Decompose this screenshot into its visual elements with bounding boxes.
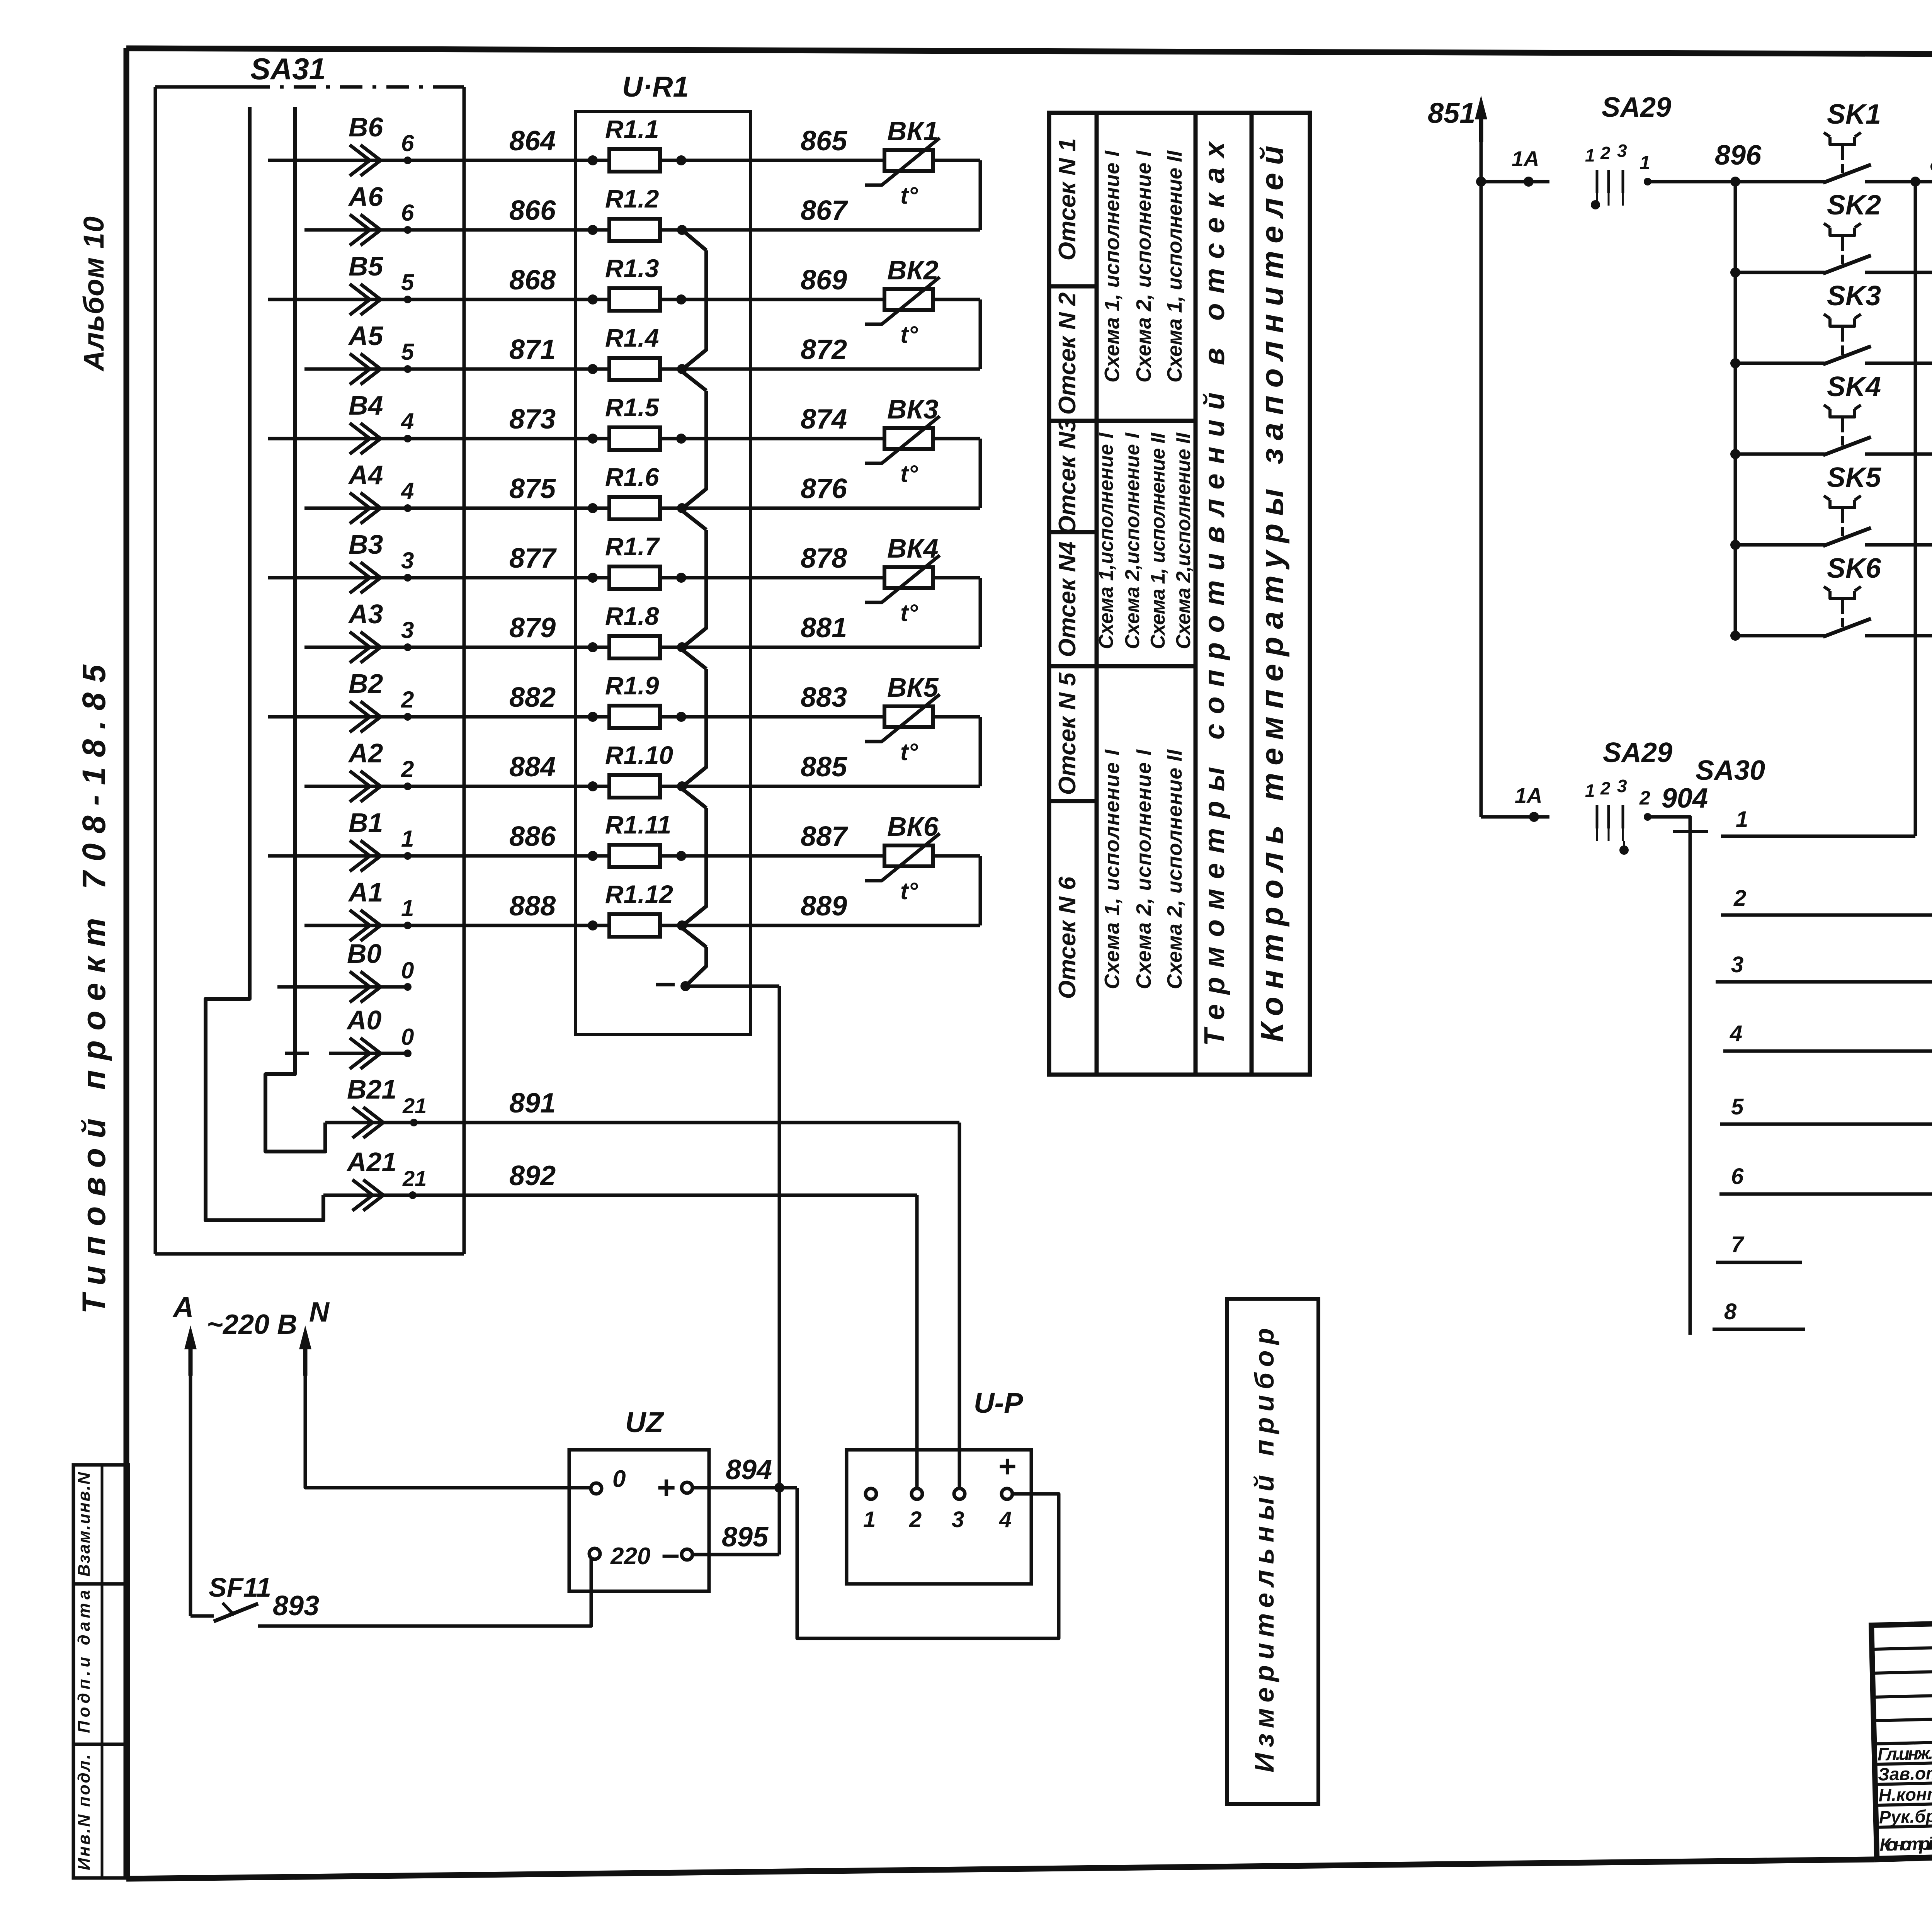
resistor R1.6	[588, 503, 598, 513]
svg-text:R1.3: R1.3	[605, 254, 659, 282]
circuit breaker SF11	[190, 1614, 214, 1618]
connector row B0 pin 0	[277, 985, 408, 989]
svg-text:882: 882	[509, 682, 556, 713]
svg-text:А0: А0	[346, 1005, 382, 1035]
thermal contact SK4	[1730, 449, 1740, 459]
thermistor BK2	[884, 289, 933, 310]
svg-text:873: 873	[509, 404, 556, 435]
resistor block U-R1 box	[575, 112, 750, 1034]
svg-text:5: 5	[401, 339, 415, 365]
vertical feed bus from 896 to SK2..SK6	[1734, 182, 1737, 636]
thermal contact SK5	[1730, 540, 1740, 550]
svg-text:1А: 1А	[1515, 783, 1543, 808]
connector row А6 pin 6 wire 866	[304, 228, 609, 232]
table: thermometers in compartments	[1049, 113, 1310, 1075]
svg-text:6: 6	[401, 200, 414, 226]
svg-text:0: 0	[612, 1466, 626, 1492]
svg-text:Схема 2, исполнение II: Схема 2, исполнение II	[1163, 749, 1186, 989]
svg-text:t°: t°	[900, 878, 918, 905]
resistor R1.4	[588, 364, 598, 374]
UZ terminal 0	[591, 1483, 602, 1494]
svg-text:+: +	[657, 1469, 676, 1505]
svg-text:21: 21	[402, 1166, 427, 1191]
svg-text:R1.8: R1.8	[605, 602, 659, 630]
svg-text:N: N	[309, 1297, 330, 1328]
svg-text:1: 1	[1585, 781, 1595, 801]
svg-text:Констр.iкат: Констр.iкат	[1879, 1833, 1932, 1855]
wire 899	[1865, 362, 1932, 365]
svg-text:868: 868	[509, 265, 556, 296]
svg-text:1: 1	[401, 826, 414, 852]
svg-text:Схема 2, исполнение I: Схема 2, исполнение I	[1132, 150, 1155, 383]
BK1 return loop to wire 867	[933, 159, 980, 162]
resistor R1.10	[588, 781, 598, 791]
connector row A0 pin 0	[285, 1052, 309, 1055]
svg-text:866: 866	[509, 195, 556, 226]
svg-text:В0: В0	[347, 939, 382, 969]
svg-text:874: 874	[801, 404, 847, 435]
svg-text:2: 2	[1733, 886, 1746, 911]
thermal contact SK2	[1730, 267, 1740, 277]
svg-text:Н.контр.: Н.контр.	[1878, 1783, 1932, 1805]
connector row B21 pin 21 wire 891	[325, 1121, 414, 1124]
svg-text:R1.2: R1.2	[605, 184, 659, 213]
svg-text:3: 3	[1617, 141, 1627, 161]
svg-text:892: 892	[509, 1160, 556, 1191]
svg-text:UZ: UZ	[625, 1406, 664, 1438]
connector row A21 pin 21 wire 892	[323, 1194, 413, 1197]
svg-text:R1.9: R1.9	[605, 671, 659, 700]
box: measuring instrument	[1227, 1299, 1318, 1804]
svg-text:Альбом 10: Альбом 10	[78, 216, 110, 372]
thermal contact SK6	[1730, 631, 1740, 641]
svg-text:887: 887	[801, 821, 848, 852]
resistor R1.5	[588, 434, 598, 444]
svg-text:SK1: SK1	[1827, 99, 1881, 130]
svg-text:872: 872	[801, 334, 847, 365]
connector row А4 pin 4 wire 875	[304, 507, 609, 510]
svg-text:SA29: SA29	[1603, 737, 1672, 768]
svg-text:1А: 1А	[1512, 146, 1539, 171]
SA31 common bus wire 1	[206, 107, 323, 1220]
svg-text:SK4: SK4	[1827, 371, 1881, 402]
UZ terminal 220	[589, 1548, 600, 1559]
svg-text:SK2: SK2	[1827, 190, 1881, 221]
wire 901	[1865, 452, 1932, 456]
margin stamp boxes (Vzam.inv.N / Podp.i data / Inv.N podl.)	[73, 1465, 128, 1878]
svg-text:SK5: SK5	[1827, 462, 1881, 493]
svg-text:В1: В1	[349, 808, 383, 838]
BK2 return loop to wire 872	[933, 298, 980, 301]
svg-text:t°: t°	[900, 461, 918, 487]
svg-text:А6: А6	[348, 182, 384, 212]
wire 892 drop to U-P pin2	[915, 1195, 919, 1489]
svg-text:5: 5	[401, 269, 415, 295]
switch SA30 selector	[1648, 817, 1690, 1335]
connector row А1 pin 1 wire 888	[304, 924, 609, 927]
svg-text:875: 875	[509, 473, 556, 504]
svg-text:Схема 2,исполнение II: Схема 2,исполнение II	[1172, 432, 1195, 649]
svg-text:851: 851	[1428, 97, 1475, 129]
BK5 return loop to wire 885	[933, 715, 980, 719]
svg-text:1: 1	[863, 1507, 876, 1532]
svg-text:895: 895	[722, 1522, 769, 1553]
svg-text:А: А	[172, 1291, 194, 1323]
svg-text:Схема 2, исполнение I: Схема 2, исполнение I	[1132, 749, 1155, 989]
svg-text:R1.5: R1.5	[605, 393, 660, 422]
resistor R1.7	[588, 573, 598, 583]
U-P terminal 4	[1002, 1488, 1012, 1499]
U-P terminal 1	[866, 1488, 876, 1499]
svg-text:894: 894	[726, 1454, 772, 1485]
connector row В3 pin 3 wire 877	[268, 576, 609, 580]
svg-text:А3: А3	[348, 599, 383, 629]
svg-text:ВК2: ВК2	[887, 255, 939, 285]
resistor R1.11	[588, 851, 598, 861]
svg-text:4: 4	[401, 408, 414, 434]
svg-text:Схема 1,исполнение I: Схема 1,исполнение I	[1095, 432, 1117, 649]
svg-text:888: 888	[509, 891, 556, 922]
svg-text:Схема 1, исполнение I: Схема 1, исполнение I	[1100, 749, 1124, 989]
thermistor BK5	[884, 706, 933, 727]
svg-text:884: 884	[509, 752, 556, 782]
svg-text:871: 871	[509, 334, 556, 365]
svg-text:0: 0	[401, 1024, 414, 1050]
SA31 common bus wire 2	[265, 107, 325, 1152]
thermal contact SK3	[1730, 358, 1740, 368]
svg-text:7: 7	[1731, 1232, 1745, 1257]
svg-text:0: 0	[401, 958, 414, 983]
BK3 return loop to wire 876	[933, 437, 980, 441]
svg-text:R1.12: R1.12	[605, 880, 673, 908]
connector row В1 pin 1 wire 886	[268, 854, 609, 858]
wire 898	[1865, 271, 1932, 274]
svg-text:В3: В3	[349, 529, 383, 560]
svg-text:1: 1	[1639, 152, 1650, 173]
connector row А2 pin 2 wire 884	[304, 785, 609, 788]
svg-text:883: 883	[801, 682, 847, 713]
svg-text:Отсек N 2: Отсек N 2	[1054, 293, 1081, 415]
supply arrow A	[189, 1336, 193, 1376]
U-P terminal 2	[912, 1488, 922, 1499]
svg-text:Отсек N4: Отсек N4	[1054, 541, 1081, 657]
svg-text:ВК6: ВК6	[887, 811, 939, 842]
R1 chain common output node	[656, 983, 675, 987]
svg-text:891: 891	[509, 1088, 556, 1119]
svg-text:897: 897	[1930, 147, 1932, 178]
svg-text:3: 3	[1617, 776, 1627, 796]
rectifier unit UZ box	[569, 1450, 709, 1591]
svg-text:3: 3	[1731, 952, 1743, 977]
svg-text:881: 881	[801, 612, 847, 643]
svg-text:Отсек N 6: Отсек N 6	[1054, 876, 1081, 999]
svg-text:3: 3	[401, 617, 414, 643]
svg-text:SK3: SK3	[1827, 281, 1881, 311]
svg-text:ВК1: ВК1	[887, 116, 939, 146]
svg-text:Отсек N 1: Отсек N 1	[1054, 138, 1081, 261]
svg-text:893: 893	[273, 1590, 319, 1621]
svg-text:886: 886	[509, 821, 556, 852]
svg-text:R1.6: R1.6	[605, 463, 660, 491]
svg-text:~220 В: ~220 В	[207, 1309, 297, 1340]
thermistor BK6	[884, 845, 933, 866]
svg-text:Отсек N 5: Отсек N 5	[1054, 672, 1081, 795]
switch SA31 box	[155, 85, 247, 89]
svg-text:2: 2	[1600, 143, 1611, 163]
svg-text:Взам.инв.N: Взам.инв.N	[75, 1472, 94, 1577]
wire 897	[1865, 180, 1932, 184]
svg-text:885: 885	[801, 752, 847, 782]
svg-text:Схема 1, исполнение I: Схема 1, исполнение I	[1100, 150, 1124, 383]
svg-text:А2: А2	[348, 738, 383, 768]
svg-text:1: 1	[401, 895, 414, 921]
svg-text:R1.11: R1.11	[605, 810, 671, 839]
lower switch SA29 deck 2	[1481, 815, 1549, 819]
svg-text:ВК3: ВК3	[887, 394, 939, 424]
svg-text:R1.10: R1.10	[605, 741, 673, 769]
svg-text:R1.4: R1.4	[605, 323, 659, 352]
svg-text:Рук.бриг.: Рук.бриг.	[1879, 1805, 1932, 1827]
svg-text:А5: А5	[348, 321, 384, 351]
selector verticals SK rows to SA30 taps	[1914, 182, 1917, 836]
wire 902	[1865, 543, 1932, 547]
svg-text:А21: А21	[346, 1147, 396, 1177]
svg-text:220: 220	[610, 1543, 650, 1570]
svg-text:878: 878	[801, 543, 847, 574]
supply arrow N	[303, 1336, 308, 1376]
svg-text:ВК5: ВК5	[887, 672, 939, 703]
svg-text:В5: В5	[349, 251, 384, 281]
svg-text:896: 896	[1715, 140, 1762, 171]
svg-text:4: 4	[1730, 1021, 1742, 1046]
feeder wire 851	[1479, 106, 1483, 142]
wire 891 drop to U-P pin3	[958, 1123, 961, 1489]
svg-text:В2: В2	[349, 668, 383, 699]
svg-text:4: 4	[401, 478, 414, 504]
connector row В6 pin 6 wire 864	[268, 159, 609, 162]
svg-text:Подп.и дата: Подп.и дата	[75, 1590, 94, 1733]
svg-text:Зав.отд.: Зав.отд.	[1878, 1762, 1932, 1784]
svg-text:Отсек N3: Отсек N3	[1054, 418, 1081, 534]
connector row В4 pin 4 wire 873	[268, 437, 609, 441]
svg-text:877: 877	[509, 543, 557, 574]
svg-text:А4: А4	[348, 460, 383, 490]
svg-text:2: 2	[1600, 778, 1611, 798]
svg-text:904: 904	[1662, 783, 1708, 814]
resistor R1.2	[588, 225, 598, 235]
svg-text:–: –	[662, 1536, 680, 1572]
svg-text:t°: t°	[900, 739, 918, 765]
svg-text:SF11: SF11	[209, 1572, 271, 1602]
svg-text:21: 21	[402, 1094, 427, 1118]
wire 903	[1865, 634, 1932, 638]
main title block stamp	[1871, 1606, 1932, 1859]
thermal contact SK1	[1830, 137, 1855, 145]
svg-text:А1: А1	[348, 877, 383, 907]
svg-text:Схема 1, исполнение II: Схема 1, исполнение II	[1163, 150, 1186, 383]
svg-text:U-P: U-P	[974, 1387, 1023, 1419]
resistor R1.3	[588, 294, 598, 304]
resistor R1.12	[588, 920, 598, 930]
resistor R1.1	[588, 155, 598, 165]
drawing frame border	[126, 48, 1932, 56]
svg-text:+: +	[998, 1449, 1017, 1483]
common wire down to 894 node	[778, 986, 781, 1555]
svg-text:t°: t°	[900, 321, 918, 348]
thermistor BK3	[884, 428, 933, 449]
row 896/897 with fuse 1A and switch SA29 contact 1	[1481, 180, 1549, 184]
svg-text:ВК4: ВК4	[887, 533, 939, 563]
svg-text:867: 867	[801, 195, 848, 226]
svg-text:SA30: SA30	[1696, 755, 1765, 786]
svg-text:SA31: SA31	[250, 52, 326, 86]
svg-text:В6: В6	[349, 112, 384, 142]
svg-text:876: 876	[801, 473, 847, 504]
svg-text:В21: В21	[347, 1074, 396, 1104]
connector row В2 pin 2 wire 882	[268, 715, 609, 719]
resistor R1.9	[588, 712, 598, 722]
svg-text:6: 6	[401, 130, 414, 156]
svg-text:Гл.инж.пр.: Гл.инж.пр.	[1877, 1742, 1932, 1764]
svg-text:t°: t°	[900, 600, 918, 626]
U-P terminal 3	[954, 1488, 965, 1499]
svg-text:2: 2	[909, 1507, 922, 1532]
svg-text:R1.1: R1.1	[605, 115, 659, 143]
svg-text:Схема 2,исполнение I: Схема 2,исполнение I	[1121, 432, 1144, 649]
svg-text:U·R1: U·R1	[622, 71, 689, 103]
svg-text:8: 8	[1724, 1299, 1737, 1324]
svg-text:2: 2	[1639, 787, 1650, 809]
thermistor BK4	[884, 567, 933, 588]
BK6 return loop to wire 889	[933, 854, 980, 858]
svg-text:3: 3	[952, 1507, 964, 1532]
resistor R1.8	[588, 642, 598, 652]
svg-text:3: 3	[401, 548, 414, 573]
BK4 return loop to wire 881	[933, 576, 980, 580]
svg-text:869: 869	[801, 265, 847, 296]
svg-text:6: 6	[1731, 1164, 1744, 1189]
svg-text:889: 889	[801, 891, 847, 922]
svg-text:R1.7: R1.7	[605, 532, 660, 561]
svg-text:SA29: SA29	[1602, 92, 1671, 123]
svg-text:В4: В4	[349, 390, 383, 420]
svg-text:864: 864	[509, 126, 556, 156]
svg-text:4: 4	[999, 1507, 1012, 1532]
svg-text:1: 1	[1736, 807, 1748, 832]
svg-text:879: 879	[509, 612, 556, 643]
connector row А5 pin 5 wire 871	[304, 367, 609, 371]
svg-text:Схема 1, исполнение II: Схема 1, исполнение II	[1147, 432, 1169, 649]
connector row В5 pin 5 wire 868	[268, 298, 609, 301]
svg-text:2: 2	[401, 687, 414, 713]
svg-text:2: 2	[401, 756, 414, 782]
svg-text:5: 5	[1731, 1094, 1744, 1119]
R1 tap chain (wiper ladder)	[682, 230, 706, 250]
thermistor BK1	[884, 150, 933, 171]
measuring transducer U-P box	[847, 1450, 1031, 1584]
svg-text:1: 1	[1585, 145, 1595, 165]
svg-text:865: 865	[801, 126, 847, 156]
svg-text:t°: t°	[900, 182, 918, 209]
connector row А3 pin 3 wire 879	[304, 646, 609, 649]
svg-text:SK6: SK6	[1827, 553, 1881, 584]
